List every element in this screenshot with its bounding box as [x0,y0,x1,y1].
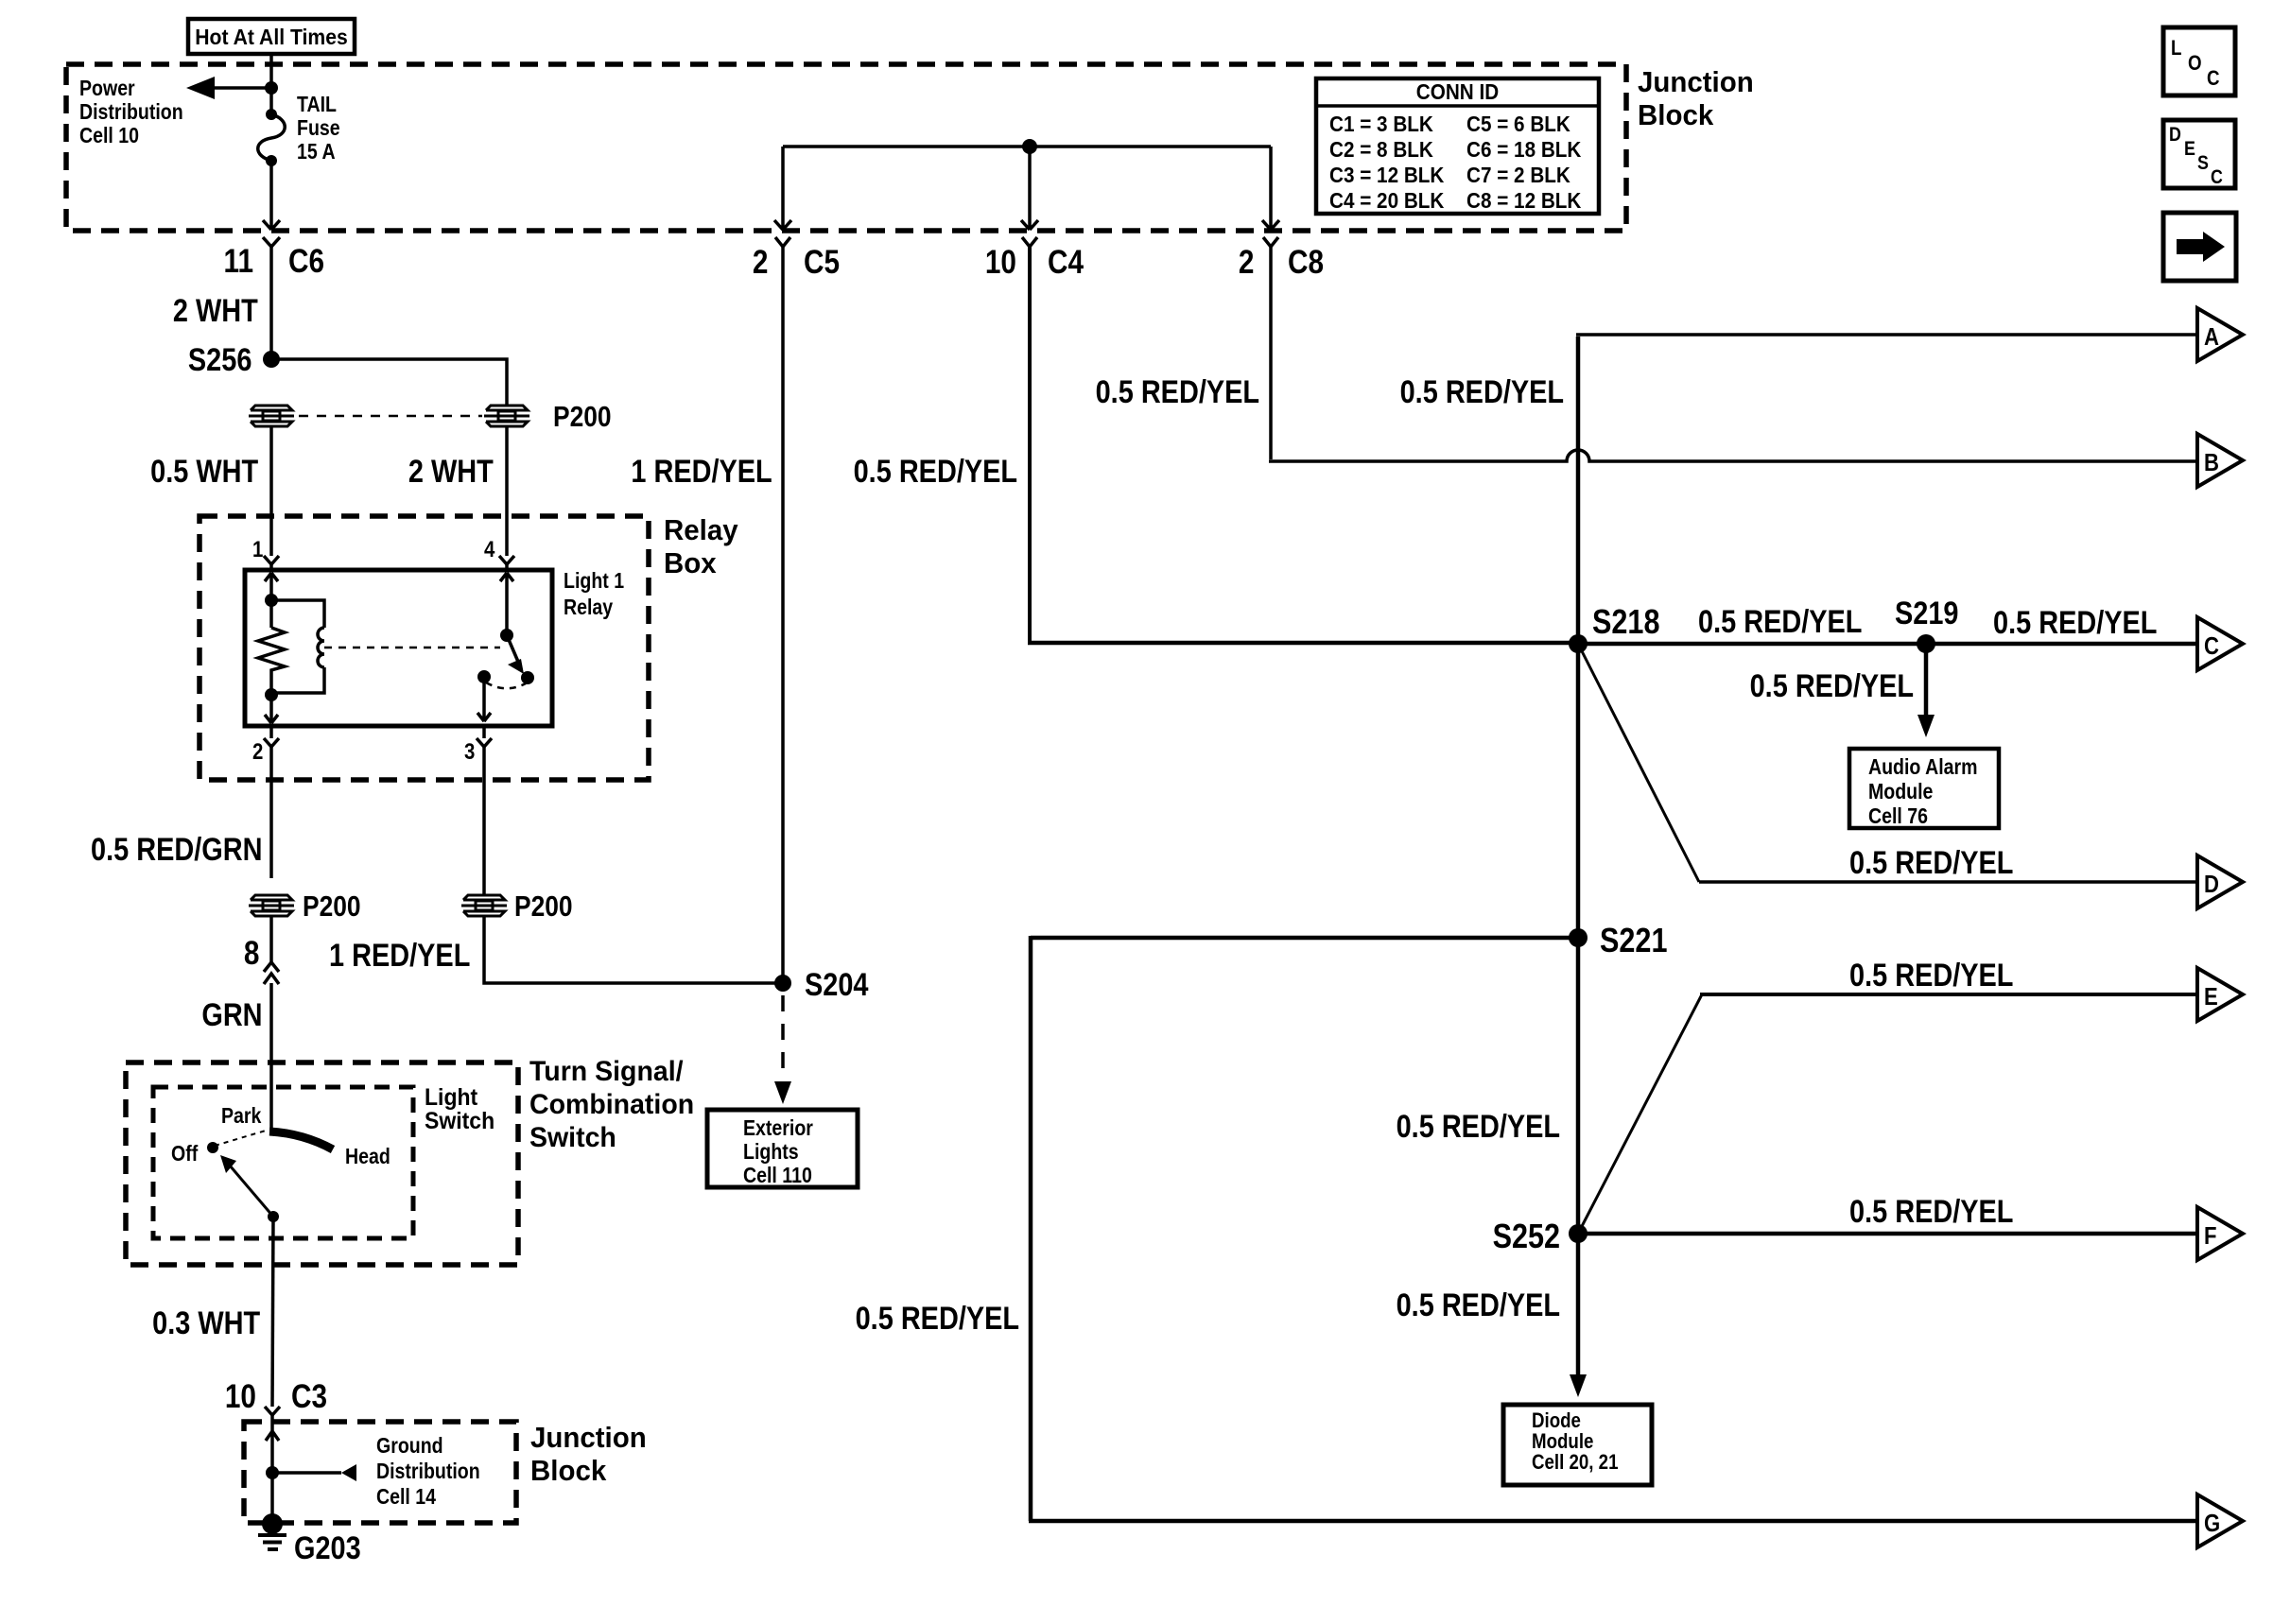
wire C8 to B with hop over vertical [1269,450,2197,461]
conn id table [1316,78,1599,214]
desc icon box [2163,120,2235,188]
wire C6 to S256 [269,247,273,359]
off-page triangle B [2197,434,2243,487]
label 2 WHT pin4 [408,454,494,491]
label hot at all times [195,24,348,50]
wire arrow to power distribution [210,86,271,90]
pin 4 [484,537,495,563]
node ground distribution tap [266,1466,279,1479]
label S204 [805,967,868,1004]
dashed wire S204 to exterior lights [781,995,785,1080]
label off [171,1141,198,1166]
label 0.5 RED/YEL mid vertical [1397,1109,1560,1146]
off-page triangle D [2197,855,2243,908]
off-page triangle E [2197,968,2243,1021]
wire S221 feed from left [1031,936,1578,941]
loc icon letters [2171,36,2181,60]
splice S256 [263,351,280,368]
exterior lights box [707,1110,858,1187]
wire fuse down to C6 with arrowhead [263,161,280,230]
splice S204 [774,975,791,992]
label 0.3 WHT [152,1305,260,1342]
splice S219 [1917,634,1935,653]
label 0.5 RED/YEL G path [856,1301,1019,1338]
top link wire C5-C4-C8 [783,145,1271,148]
label 0.5 RED/YEL row C right [1993,605,2157,642]
wire A row [1576,333,2197,337]
label light switch [425,1086,495,1133]
relay inner box [245,570,552,726]
label head [345,1144,390,1169]
label 0.5 RED/YEL row E [1849,958,2013,994]
label 1 RED/YEL lower [329,938,470,975]
label park [221,1103,261,1129]
splice S221 [1569,928,1588,947]
wire P200 to connector 8 [269,916,273,962]
relay box dashed [200,516,649,780]
connector C3 chevron [265,1407,280,1415]
label S218 [1592,602,1659,642]
relay dashed contact arc [486,682,526,688]
relay coil branch [271,600,324,693]
relay NO contact to pin3 arrow down [477,677,491,721]
label 0.5 RED/YEL A-feed [1400,374,1564,411]
label P200 lower left [303,890,361,924]
off-page triangle G [2197,1494,2243,1547]
pin 10 and C4 [985,244,1016,282]
diode module box [1503,1405,1652,1485]
connector C5 chevron [775,237,790,247]
label 0.5 RED/YEL row C left [1698,604,1862,641]
wire long loop down to G row [1029,936,2197,1521]
wire C4 down to corner [1028,247,1032,641]
wire E row [1700,993,2197,996]
wire C5 to S204 [781,247,785,983]
wire to G203 [270,1473,274,1520]
wire C row S218 to C triangle [1578,642,2197,647]
inline connector P200 lower right [461,895,507,916]
label S219 [1895,596,1958,632]
wire S256 branch right [271,359,507,406]
label 0.5 RED/YEL C4 [854,454,1017,491]
pin 2 [252,739,263,766]
wire C8 down to corner [1269,247,1273,459]
relay coil input arrow up [265,573,278,600]
pin 2 and C5 [752,244,768,282]
pin2 chevron [264,726,279,747]
wire diagonal S252 to E row [1578,994,1702,1234]
label 0.5 RED/GRN [91,832,262,869]
connector C4 chevron [1022,237,1037,247]
fuse TAIL 15A [266,109,277,120]
off-page triangle F [2197,1207,2243,1260]
wire P200 to relay pin1 [269,426,273,556]
wire drop to C8 with arrowhead [1262,147,1279,230]
pin1 chevron [264,556,279,564]
dashed pairing line P200 [299,415,482,418]
connector C6 chevron [263,237,280,247]
label 2 WHT [173,293,258,330]
off-page triangle A [2197,308,2243,361]
label 0.5 RED/YEL C8 [1096,374,1259,411]
label P200 upper [553,400,612,434]
wire from hot box to fuse [269,54,273,114]
turn signal outer dashed box [126,1063,518,1265]
hot at all times box [188,19,355,54]
pin 2 and C8 [1238,244,1254,282]
label 0.5 RED/YEL S252 drop [1397,1287,1560,1324]
label 1 RED/YEL C5 [632,454,772,491]
splice S218 [1569,634,1588,653]
junction block lower dashed box [244,1422,516,1523]
inline connector P200 upper right [484,406,529,426]
wire lever to C3 [272,1217,273,1407]
audio alarm module box [1849,749,1999,828]
wire drop to C5 with arrowhead [774,147,791,230]
label S252 [1493,1217,1560,1256]
wire C3 into junction block arrow up [266,1415,279,1473]
triangle letters [2204,322,2219,352]
ground G203 symbol [262,1513,283,1534]
connector C8 chevron [1263,237,1278,247]
wire P200 down and right to S204 [484,916,783,983]
junction block top dashed box [66,64,1626,231]
label ground distribution cell 14 [376,1433,480,1510]
connector 8 double chevron [264,962,279,984]
label 0.5 RED/YEL row D [1849,845,2013,882]
label G203 [294,1530,361,1567]
label 0.5 RED/YEL S219 drop [1750,668,1914,705]
relay actuation dashed link [324,647,500,649]
label P200 lower right [514,890,573,924]
light switch inner dashed box [153,1087,413,1238]
node power feed dot [265,81,278,95]
label diode module cell 20 21 [1532,1410,1618,1473]
desc icon letters [2169,124,2181,147]
wire to ground distribution arrow [272,1471,341,1475]
wire vertical A feed S218 to S252 [1576,337,1581,1234]
wire drop to C4 with arrowhead [1021,147,1038,230]
resistor zigzag [258,600,285,695]
relay switch common arrow up [500,573,513,635]
label 0.5 RED/YEL row F [1849,1194,2013,1231]
switch lever with arrowhead [230,1166,273,1217]
wire diagonal S218 to D row [1578,644,1699,882]
pin 10 and C3 [225,1378,256,1416]
inline connector P200 lower left [249,895,294,916]
loc icon box [2163,27,2235,95]
wire C4 corner to S218 [1028,641,1578,646]
label exterior lights cell 110 [743,1116,813,1187]
wire pin3 to P200 lower right [482,747,486,895]
wire GRN down to switch [269,983,273,1131]
inline connector P200 upper left [249,406,294,426]
dashed link Off to Park [215,1131,266,1146]
label junction block bottom [530,1421,647,1487]
wire S219 drop to audio alarm [1924,644,1929,716]
label light 1 relay [564,567,624,620]
label GRN [202,997,263,1034]
relay switch arm with arrowhead [507,635,518,662]
wire P200 to relay pin4 [505,426,509,556]
pin 8 [243,935,259,973]
wire F row [1578,1232,2197,1236]
label audio alarm module cell 76 [1868,754,1978,828]
switch wiper arc Park-Head [269,1132,333,1149]
forward arrow icon box [2163,213,2236,281]
label junction block top [1638,65,1754,131]
splice S252 [1569,1224,1588,1243]
wire D row [1699,880,2197,884]
pin 1 [252,537,263,563]
wire S252 drop to diode module [1576,1234,1581,1375]
wire pin2 to P200 lower [269,747,273,878]
off-page triangle C [2197,617,2243,670]
label relay box [664,513,738,579]
label S256 [188,342,252,379]
label power distribution cell 10 [79,77,183,147]
pin4 chevron [499,556,514,564]
label turn signal combination switch [529,1055,694,1154]
relay coil output arrow down [265,695,278,723]
conn id table text [1330,80,1585,104]
label 0.5 WHT [150,454,258,491]
label tail fuse 15a [297,93,340,164]
label S221 [1600,921,1667,960]
pin3 chevron [477,726,492,747]
switch Off contact dot [207,1142,218,1153]
node C4 tee [1022,139,1037,154]
pin 3 [464,739,475,766]
pin 11 and C6 [224,243,253,281]
